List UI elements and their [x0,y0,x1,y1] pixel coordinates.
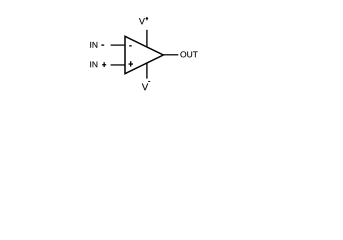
label OUT [180,51,197,57]
label IN- [90,42,104,48]
wire OUT output [163,54,178,56]
wire IN+ input [111,64,125,66]
wire V- supply [146,63,148,79]
label IN+ [90,61,106,67]
op-amp U1 [125,36,163,73]
inverting input pin marker - [129,45,132,47]
wire V+ supply [146,30,148,48]
label V+ [139,17,148,24]
non-inverting input pin marker + [129,61,134,66]
label V- [142,81,150,90]
wire IN- input [111,44,125,46]
